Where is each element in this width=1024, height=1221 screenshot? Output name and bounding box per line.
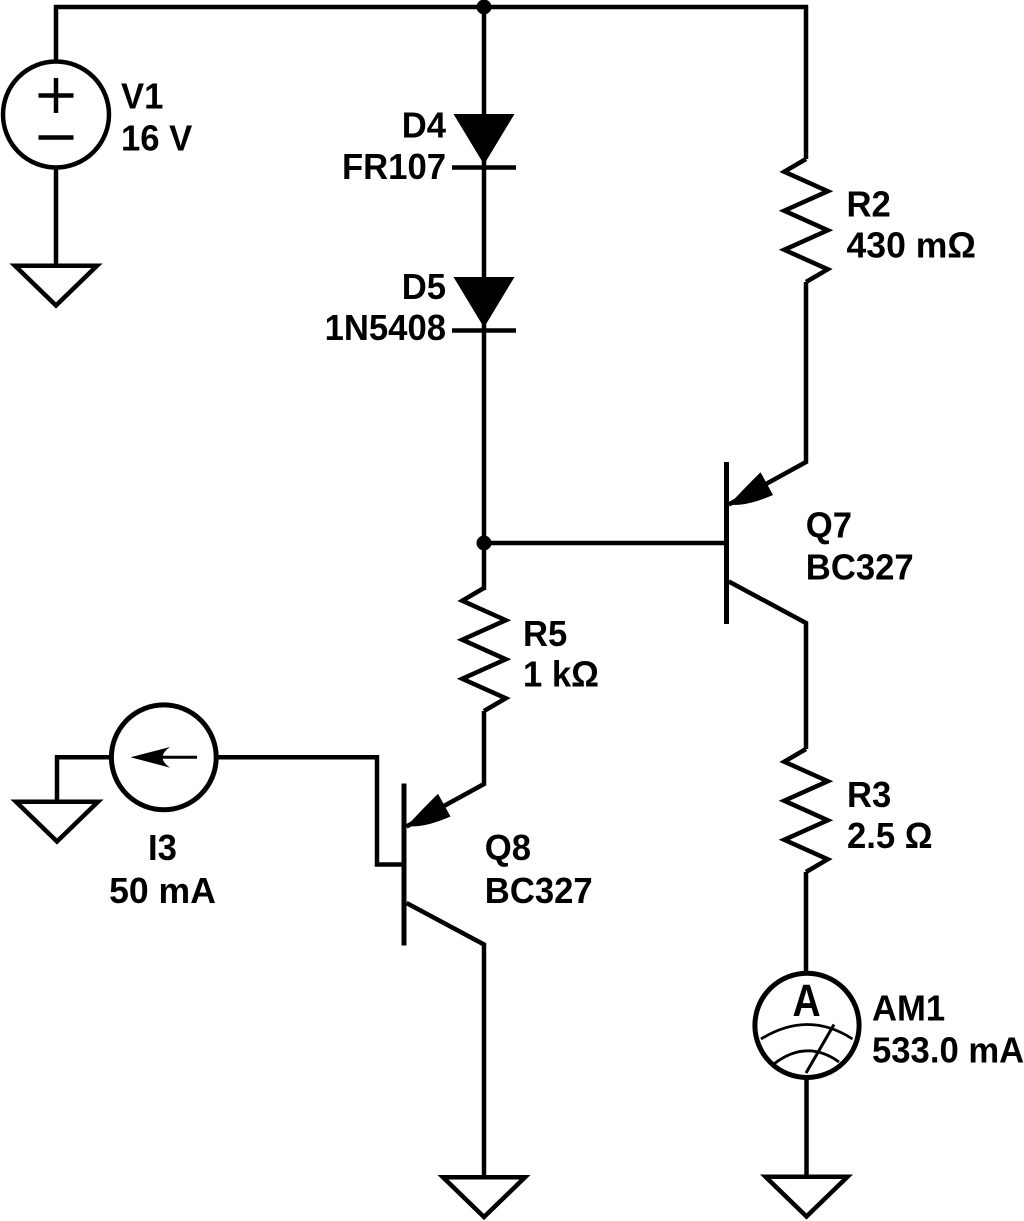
svg-text:FR107: FR107 — [342, 146, 446, 187]
svg-text:R2: R2 — [847, 184, 891, 225]
svg-text:533.0 mA: 533.0 mA — [872, 1030, 1024, 1071]
svg-text:Q7: Q7 — [806, 505, 852, 546]
svg-text:1N5408: 1N5408 — [325, 307, 446, 348]
svg-text:D5: D5 — [402, 266, 446, 307]
svg-text:A: A — [792, 976, 820, 1027]
svg-text:BC327: BC327 — [806, 547, 914, 588]
svg-text:16 V: 16 V — [121, 118, 193, 159]
svg-text:2.5 Ω: 2.5 Ω — [847, 815, 933, 856]
svg-text:R5: R5 — [523, 613, 567, 654]
svg-text:V1: V1 — [121, 76, 163, 117]
svg-text:Q8: Q8 — [485, 827, 531, 868]
svg-text:1 kΩ: 1 kΩ — [523, 654, 599, 695]
svg-text:R3: R3 — [847, 774, 891, 815]
svg-text:AM1: AM1 — [872, 988, 945, 1029]
svg-text:BC327: BC327 — [485, 870, 593, 911]
svg-text:430 mΩ: 430 mΩ — [847, 224, 976, 266]
svg-text:D4: D4 — [402, 105, 447, 146]
svg-text:50 mA: 50 mA — [109, 870, 216, 912]
svg-text:I3: I3 — [148, 827, 177, 868]
